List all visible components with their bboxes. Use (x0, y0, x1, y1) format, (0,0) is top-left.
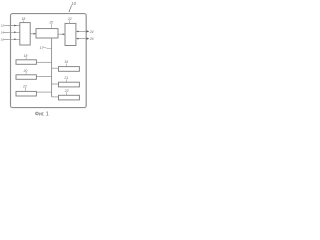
svg-text:17: 17 (40, 46, 44, 50)
block 28 (left column 1) (16, 60, 36, 65)
svg-text:19: 19 (64, 60, 68, 64)
wire left2 to bus (36, 76, 51, 78)
leader of label 20 (51, 24, 53, 29)
block 34 (right column 1) (59, 67, 80, 72)
wire block18 to block20 (30, 33, 34, 35)
block 30 (left column 2) (16, 75, 36, 80)
wire left1 to bus (36, 61, 51, 63)
arrowhead into block22 (63, 33, 65, 35)
leader of label 32 (24, 88, 26, 91)
leader of label 36 (65, 79, 67, 82)
background (0, 0, 97, 120)
svg-text:24: 24 (89, 30, 94, 34)
arrowhead 26 (87, 38, 90, 40)
block 20 (middle block) (36, 29, 58, 38)
block 36 (right column 2) (59, 82, 80, 87)
svg-text:20: 20 (23, 69, 28, 73)
wire left3 to bus (36, 91, 51, 93)
input wire 16 (4, 38, 20, 40)
input wire 14 (4, 31, 20, 33)
wire bus to right2 (52, 83, 59, 85)
leader of label 30 (25, 72, 27, 75)
leader of label 22 (69, 20, 71, 23)
svg-text:10: 10 (71, 1, 76, 6)
leader of label 18 (23, 20, 25, 22)
arrowhead into block20 (34, 33, 36, 35)
svg-text:22: 22 (67, 17, 72, 21)
block 38 (right column 3) (59, 95, 80, 100)
leader of label 28 (25, 57, 27, 60)
arrowhead 16 (14, 38, 16, 40)
svg-text:Фиг. 1: Фиг. 1 (35, 112, 49, 118)
bus wire (vertical) (51, 38, 53, 97)
leader of bus label 17 (43, 47, 52, 48)
system border (outer box 10) (11, 14, 87, 108)
wire bus to right1 (52, 67, 59, 69)
svg-text:22: 22 (22, 85, 27, 89)
arrowhead 24 (87, 30, 90, 32)
block 22 (right tall block) (65, 23, 76, 45)
input wire 12 (4, 25, 20, 27)
arrowhead 14 (14, 31, 16, 33)
block 32 (left column 3) (16, 91, 36, 96)
wire bus to right3 (52, 96, 59, 98)
leader line of label 10 (69, 5, 71, 11)
svg-text:20: 20 (48, 20, 53, 24)
output wire 26 (76, 38, 88, 40)
output wire 24 (76, 30, 88, 32)
svg-text:18: 18 (24, 54, 28, 58)
svg-text:18: 18 (22, 17, 26, 21)
leader of label 38 (65, 92, 67, 95)
arrowhead 12 (14, 25, 16, 27)
svg-text:26: 26 (89, 37, 94, 41)
leader of label 34 (65, 64, 67, 67)
block 18 (tall input block) (20, 23, 30, 45)
svg-text:21: 21 (63, 76, 68, 80)
wire block20 to block22 (58, 33, 64, 35)
